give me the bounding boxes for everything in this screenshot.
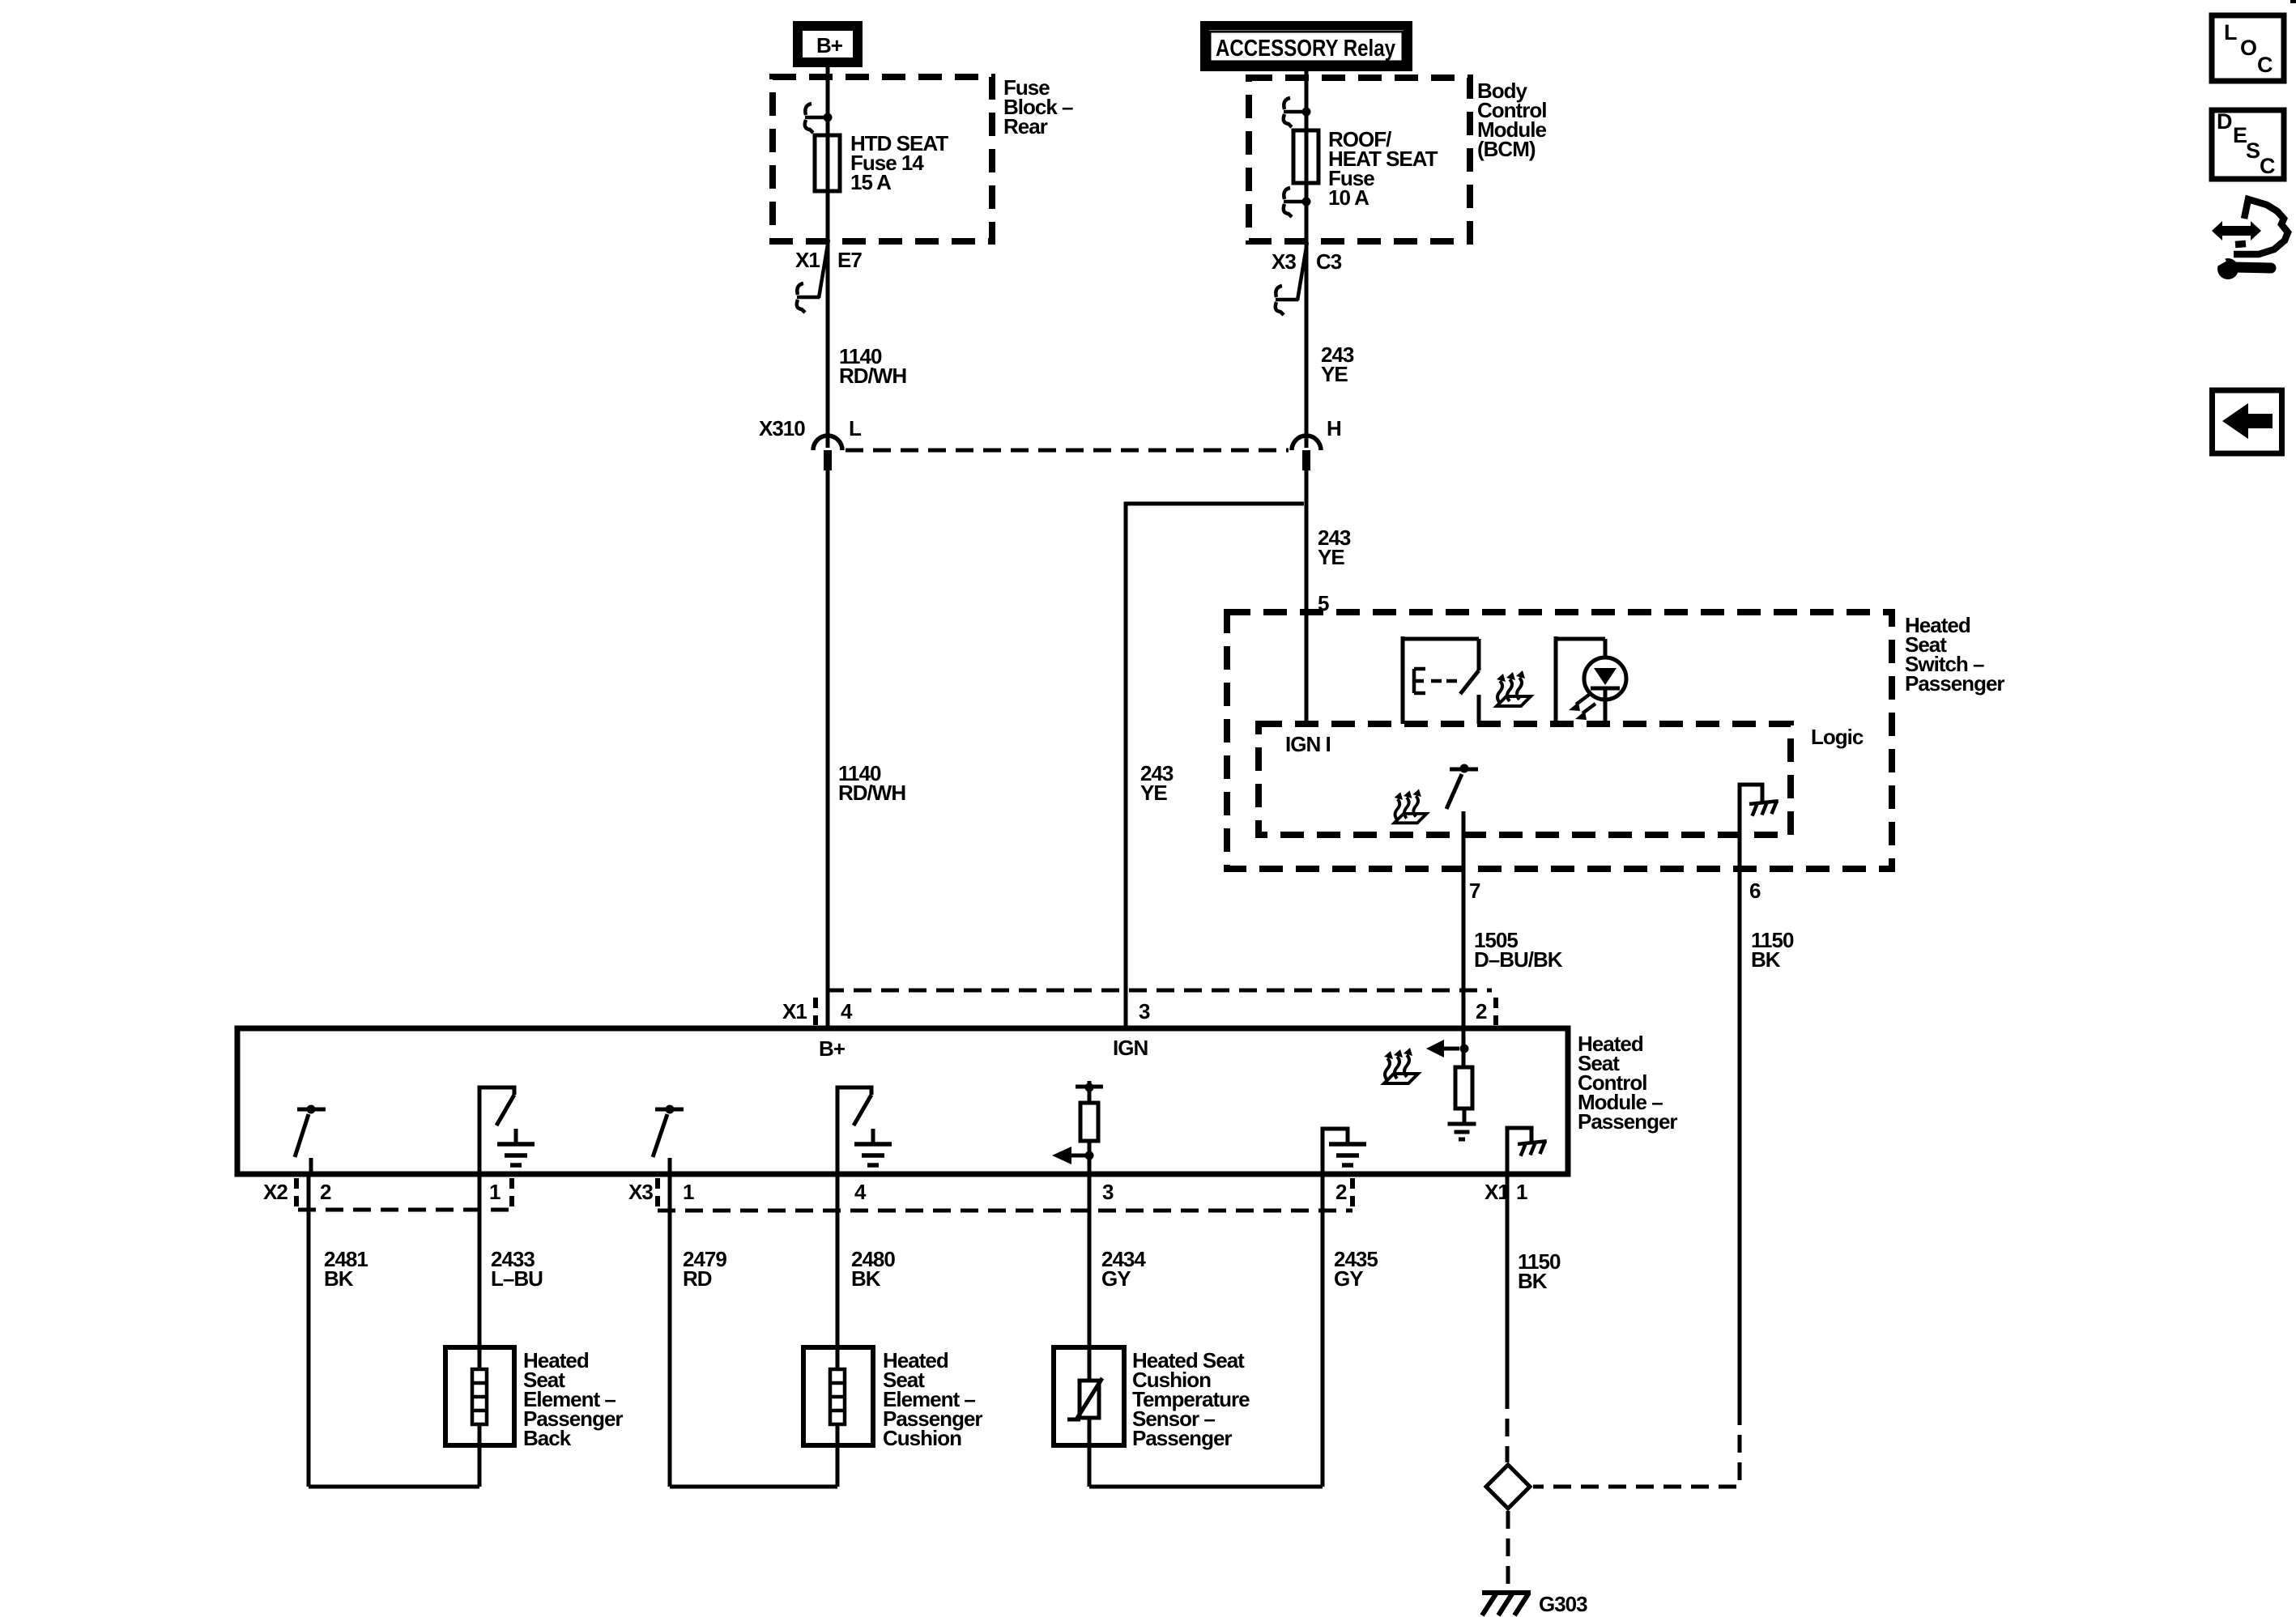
BCM label: [1477, 79, 1547, 161]
wire 1140 RD/WH from B+ to connector X310 L: [826, 67, 830, 448]
svg-text:Logic: Logic: [1811, 725, 1864, 749]
pin 7 label: [1469, 879, 1480, 903]
svg-text:X3: X3: [628, 1180, 653, 1204]
svg-text:GY: GY: [1334, 1266, 1363, 1291]
X2 labels: [263, 1180, 501, 1204]
svg-text:Cushion: Cushion: [883, 1426, 961, 1450]
wire branch 243 YE to module pin 3: [1126, 504, 1304, 1028]
wire label 243 YE mid: [1318, 526, 1351, 569]
body control module BCM dashed box: [1249, 78, 1470, 241]
wire label 1140 RD/WH upper: [839, 344, 906, 388]
heated seat element passenger cushion: [803, 1347, 873, 1445]
svg-text:L: L: [849, 416, 862, 440]
icon DESC: [2212, 109, 2284, 179]
svg-text:YE: YE: [1321, 362, 1348, 386]
temperature sensor label: [1132, 1348, 1250, 1450]
logic output switch: [1446, 764, 1478, 810]
svg-text:RD/WH: RD/WH: [839, 364, 906, 388]
svg-text:Back: Back: [523, 1426, 572, 1450]
wire label 243 YE upper: [1321, 343, 1354, 386]
module switch to pin X2-2: [295, 1105, 326, 1175]
svg-text:L–BU: L–BU: [491, 1266, 543, 1291]
module chassis ground pin X1-1: [1507, 1128, 1548, 1174]
wire 243 YE from X310 H to switch pin 5: [1305, 470, 1309, 724]
splice diamond: [1486, 1465, 1530, 1508]
svg-text:X3: X3: [1272, 249, 1296, 274]
clip terminal below ROOF/HEAT SEAT fuse: [1284, 188, 1311, 217]
fuse block label: [1003, 75, 1073, 138]
heated seat icon in logic: [1395, 789, 1427, 823]
svg-text:BK: BK: [1518, 1269, 1548, 1293]
fuse HTD SEAT Fuse 14 15 A: [815, 131, 948, 194]
pin 5 label: [1318, 591, 1329, 615]
loop wire temperature sensor: [1089, 1485, 1323, 1489]
svg-text:2: 2: [1335, 1180, 1347, 1204]
svg-text:BK: BK: [324, 1266, 354, 1291]
fuse block rear dashed box: [773, 77, 992, 241]
wire label 2433 L-BU: [491, 1247, 543, 1291]
svg-text:X310: X310: [759, 416, 805, 440]
pin 6 label: [1749, 879, 1761, 903]
svg-text:L: L: [2224, 20, 2237, 45]
wire label 1150 BK left: [1518, 1249, 1561, 1293]
X3 labels: [628, 1180, 1347, 1204]
svg-text:3: 3: [1139, 999, 1150, 1023]
heated seat icon in module: [1384, 1048, 1418, 1083]
heated seat switch outer dashed box: [1227, 612, 1892, 869]
svg-text:D–BU/BK: D–BU/BK: [1474, 947, 1563, 972]
wire 1505 D-BU/BK switch pin 7 to module pin 2: [1462, 811, 1466, 1028]
wire label 243 YE branch: [1140, 761, 1174, 805]
dashed connector line X1: [816, 990, 1496, 1025]
svg-text:GY: GY: [1101, 1266, 1131, 1291]
IGN I node label: [1285, 732, 1331, 756]
module switch to pin X3-1: [653, 1105, 684, 1175]
logic dashed box: [1259, 724, 1791, 835]
connector X310 halves L and H: [759, 416, 1341, 470]
svg-text:10 A: 10 A: [1328, 185, 1370, 210]
power terminal ACCESSORY Relay: [1205, 26, 1408, 67]
svg-text:B+: B+: [819, 1036, 846, 1061]
svg-text:X2: X2: [263, 1180, 288, 1204]
wire 2433 L-BU: [478, 1174, 482, 1487]
svg-text:S: S: [2246, 138, 2260, 163]
wire 1150 BK from switch pin 6: [1738, 785, 1742, 1407]
clip terminal above ROOF/HEAT SEAT fuse: [1284, 98, 1311, 127]
svg-text:YE: YE: [1318, 545, 1344, 569]
svg-text:2: 2: [1476, 999, 1487, 1023]
svg-text:E: E: [2233, 123, 2247, 147]
clip terminal above fuse 14: [805, 104, 833, 133]
heated seat control module box: [237, 1028, 1568, 1174]
svg-text:Passenger: Passenger: [1905, 671, 2004, 696]
power terminal B+: [798, 26, 858, 62]
module driver to pin X3-4 with earth ground: [837, 1087, 892, 1174]
svg-text:6: 6: [1749, 879, 1761, 903]
wire 1140 RD/WH from X310 to module pin 4: [826, 470, 830, 1028]
wire 243 YE from ACCESSORY relay: [1305, 68, 1309, 448]
node IGN: [1113, 1036, 1148, 1060]
fuse ROOF/HEAT SEAT Fuse 10 A: [1293, 127, 1438, 210]
indicator LED: [1556, 636, 1626, 724]
module temperature sense resistor pin 3: [1052, 1081, 1103, 1174]
wire 2479 RD: [668, 1174, 672, 1487]
X1 connector labels: [782, 999, 1487, 1023]
dashed wire splice to G303: [1506, 1511, 1510, 1585]
heated seat element passenger back: [445, 1347, 514, 1445]
svg-text:IGN: IGN: [1113, 1036, 1148, 1060]
wire label 2479 RD: [683, 1247, 726, 1291]
icon LOC: [2212, 15, 2284, 81]
connector X1 pin E7: [795, 240, 862, 313]
svg-text:B+: B+: [816, 33, 843, 57]
connector X3 dashed line: [658, 1178, 1352, 1211]
wire 2481 BK: [307, 1174, 311, 1487]
svg-text:Rear: Rear: [1003, 114, 1048, 138]
svg-text:C3: C3: [1316, 249, 1342, 274]
svg-text:ACCESSORY Relay: ACCESSORY Relay: [1216, 36, 1395, 62]
svg-text:1: 1: [683, 1180, 694, 1204]
wire label 2435 GY: [1334, 1247, 1378, 1291]
wire label 2434 GY: [1101, 1247, 1146, 1291]
X1 bottom labels: [1485, 1180, 1527, 1204]
wire label 2481 BK: [324, 1247, 368, 1291]
icon connector-end-view hand with wrench: [2212, 199, 2288, 279]
module sense arrow and pull resistor pin 2 (1505): [1426, 1028, 1476, 1139]
svg-text:IGN I: IGN I: [1285, 732, 1331, 756]
heated seat cushion temperature sensor: [1054, 1347, 1124, 1445]
heated seat icon in switch: [1497, 670, 1531, 706]
svg-text:3: 3: [1102, 1180, 1114, 1204]
heated seat switch label: [1905, 613, 2004, 696]
svg-text:D: D: [2217, 109, 2232, 134]
wire label 1140 RD/WH lower: [838, 761, 905, 805]
element back label: [523, 1348, 623, 1450]
module earth ground pin 2: [1323, 1129, 1366, 1174]
loop wire element back: [309, 1485, 479, 1489]
svg-text:H: H: [1327, 416, 1341, 440]
element cushion label: [883, 1348, 982, 1450]
icon back arrow: [2213, 390, 2282, 453]
svg-text:X1: X1: [795, 248, 820, 272]
connector X2 dashed line: [296, 1178, 512, 1210]
wire 2435 GY: [1321, 1174, 1325, 1487]
svg-text:C: C: [2260, 154, 2275, 178]
svg-text:E7: E7: [837, 248, 862, 272]
dashed wire to splice: [1506, 1391, 1510, 1462]
connector X3 pin C3: [1272, 242, 1342, 315]
svg-text:YE: YE: [1140, 781, 1167, 805]
svg-text:2: 2: [320, 1180, 331, 1204]
svg-text:15 A: 15 A: [850, 170, 892, 194]
svg-text:1: 1: [489, 1180, 501, 1204]
dashed wire from switch ground to splice: [1533, 1407, 1740, 1487]
svg-text:BK: BK: [851, 1266, 881, 1291]
svg-text:Passenger: Passenger: [1132, 1426, 1232, 1450]
module driver to pin X2-1 with earth ground: [479, 1087, 535, 1174]
svg-text:BK: BK: [1751, 947, 1781, 972]
wire 2434 GY: [1088, 1174, 1092, 1487]
dashed connector line X310: [846, 449, 1289, 453]
page corner mark: [2290, 0, 2296, 3]
svg-text:4: 4: [841, 999, 853, 1023]
svg-text:7: 7: [1469, 879, 1480, 903]
svg-text:X1: X1: [782, 999, 807, 1023]
wire label 1150 BK right: [1751, 928, 1794, 972]
switch contact with E detent: [1403, 636, 1479, 724]
loop wire element cushion: [670, 1485, 837, 1489]
logic label: [1811, 725, 1864, 749]
svg-text:4: 4: [854, 1180, 867, 1204]
wire 2480 BK: [836, 1174, 840, 1487]
svg-text:O: O: [2240, 36, 2256, 60]
ground G303: [1482, 1592, 1587, 1616]
svg-text:G303: G303: [1539, 1592, 1587, 1616]
svg-text:Passenger: Passenger: [1578, 1109, 1677, 1134]
svg-text:C: C: [2257, 53, 2273, 77]
wire label 2480 BK: [851, 1247, 895, 1291]
svg-text:RD/WH: RD/WH: [838, 781, 905, 805]
wire 1150 BK from module pin X1-1: [1506, 1174, 1510, 1391]
svg-text:(BCM): (BCM): [1477, 137, 1536, 161]
node B+: [819, 1036, 846, 1061]
wire label 1505 D-BU/BK: [1474, 928, 1563, 972]
ground return in logic box: [1740, 785, 1779, 816]
module label: [1578, 1032, 1677, 1134]
svg-text:1: 1: [1516, 1180, 1527, 1204]
svg-text:RD: RD: [683, 1266, 712, 1291]
